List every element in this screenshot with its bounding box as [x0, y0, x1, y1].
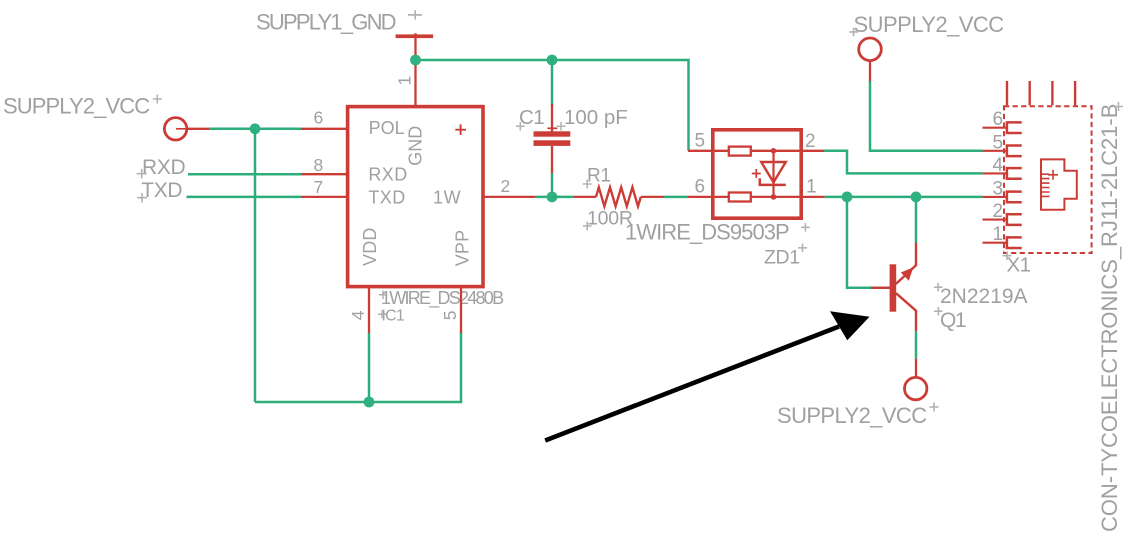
ZD1 name label	[764, 244, 807, 269]
wire main row to R1	[552, 196, 574, 199]
annotation arrow	[545, 311, 869, 440]
X1 jack icon	[1041, 159, 1077, 209]
svg-text:SUPPLY2_VCC: SUPPLY2_VCC	[777, 403, 927, 428]
C1 value label 100 pF	[557, 106, 628, 131]
ZD1 pin 6 stub	[688, 196, 712, 198]
svg-text:RXD: RXD	[142, 156, 185, 179]
IC1 pin 2 stub	[483, 196, 535, 198]
svg-text:2: 2	[993, 201, 1004, 222]
IC1 pin 8 stub	[301, 173, 347, 175]
svg-text:C1: C1	[519, 106, 544, 129]
net label RXD	[137, 156, 186, 179]
wire VCC left vertical down	[254, 129, 257, 402]
svg-text:2: 2	[501, 176, 511, 196]
net label SUPPLY2_VCC top right	[849, 12, 1004, 37]
X1 pin 2	[983, 201, 1022, 225]
IC1 pin 6 stub	[301, 128, 347, 130]
svg-text:1: 1	[395, 76, 415, 86]
IC1 pin 1 stub	[414, 33, 416, 106]
svg-text:TXD: TXD	[141, 179, 182, 202]
X1 pin 3	[983, 178, 1022, 202]
supply symbol SUPPLY2_VCC bottom (circle)	[905, 377, 927, 399]
junction main row B	[911, 192, 922, 203]
svg-text:SUPPLY2_VCC: SUPPLY2_VCC	[3, 94, 150, 119]
svg-text:4: 4	[348, 310, 368, 320]
IC1 name label IC1	[378, 308, 405, 325]
stub VCC top right	[869, 60, 871, 81]
IC1 value 1WIRE_DS2480B	[379, 288, 504, 309]
ZD1 pin 1 stub	[801, 196, 825, 198]
X1 top stub c	[1051, 81, 1053, 105]
ground symbol SUPPLY1_GND	[396, 34, 434, 38]
svg-text:IC1: IC1	[382, 308, 405, 325]
ZD1 pin 2 stub	[801, 150, 824, 152]
svg-text:2N2219A: 2N2219A	[940, 285, 1028, 308]
X1 pin 6	[983, 109, 1022, 133]
R1 name label	[583, 165, 611, 188]
X1 value label CON-TYCOELECTRONICS_RJ11-2LC21-B (rotated)	[1097, 102, 1123, 532]
svg-text:7: 7	[314, 177, 324, 197]
capacitor C1	[534, 60, 571, 197]
svg-text:1WIRE_DS9503P: 1WIRE_DS9503P	[625, 220, 789, 245]
X1 top stub d	[1074, 81, 1076, 105]
X1 pin 1	[983, 224, 1022, 248]
svg-text:1W: 1W	[433, 187, 461, 207]
svg-text:1: 1	[806, 177, 817, 198]
wire stub VCC circle to net	[187, 128, 209, 130]
transistor Q1 2N2219A	[871, 243, 916, 331]
svg-text:POL: POL	[369, 118, 405, 138]
svg-text:R1: R1	[587, 165, 611, 186]
svg-text:TXD: TXD	[368, 187, 405, 207]
protection device ZD1 body 1WIRE_DS9503P	[713, 130, 801, 218]
svg-text:1: 1	[993, 224, 1004, 245]
IC1 origin cross	[455, 124, 466, 135]
junction inside ZD1 top	[771, 148, 777, 154]
wire IC1 pin2 to junction	[535, 196, 552, 199]
svg-text:6: 6	[993, 109, 1004, 130]
stub to VCC bottom circle	[915, 359, 917, 378]
X1 pin 5	[983, 132, 1022, 156]
svg-text:VDD: VDD	[360, 227, 380, 266]
svg-text:6: 6	[695, 177, 706, 198]
X1 pin 4	[983, 155, 1022, 179]
X1 top stub a	[1006, 81, 1008, 105]
junction bottom net	[364, 397, 375, 408]
C1 name label	[516, 106, 544, 131]
X1 name label	[1003, 251, 1031, 276]
wire TXD	[187, 196, 302, 199]
wire GND net top horizontal	[416, 60, 689, 151]
ZD1 value label 1WIRE_DS9503P	[625, 220, 810, 245]
svg-text:5: 5	[440, 311, 460, 321]
junction VCC left	[250, 123, 261, 134]
svg-text:3: 3	[993, 178, 1004, 199]
junction C1 bottom	[547, 192, 558, 203]
ZD1 internal resistor top	[711, 147, 803, 156]
svg-text:RXD: RXD	[368, 164, 407, 184]
IC1 pin 7 stub	[301, 196, 347, 198]
junction inside ZD1 bottom	[771, 194, 777, 200]
svg-text:100 pF: 100 pF	[564, 106, 628, 129]
net label SUPPLY1_GND	[256, 10, 422, 35]
wire VCC left horizontal	[209, 128, 301, 131]
junction GND at C1	[547, 55, 558, 66]
svg-text:SUPPLY1_GND: SUPPLY1_GND	[256, 10, 396, 35]
svg-text:ZD1: ZD1	[764, 247, 800, 269]
svg-text:SUPPLY2_VCC: SUPPLY2_VCC	[854, 12, 1005, 37]
junction main row A	[842, 192, 853, 203]
net label SUPPLY2_VCC left	[3, 94, 162, 119]
supply symbol SUPPLY2_VCC left (circle)	[164, 118, 190, 140]
ZD1 internal resistor bottom	[711, 193, 803, 202]
svg-text:CON-TYCOELECTRONICS_RJ11-2LC21: CON-TYCOELECTRONICS_RJ11-2LC21-B	[1097, 104, 1122, 532]
svg-text:X1: X1	[1007, 254, 1031, 277]
svg-text:4: 4	[993, 155, 1004, 176]
resistor R1	[574, 187, 664, 206]
svg-text:2: 2	[805, 131, 816, 152]
wire ZD1 pin1 to RJ11 pin3	[825, 196, 983, 199]
svg-text:GND: GND	[405, 126, 425, 166]
wire junction to Q1 emitter	[915, 197, 918, 243]
junction GND at IC1 pin1	[410, 55, 421, 66]
wire bottom net	[255, 333, 461, 402]
op IC1 body 1WIRE_DS2480B	[348, 107, 483, 287]
R1 value label 100R	[583, 208, 633, 231]
ZD1 internal zener diode	[752, 151, 786, 197]
wire RXD	[188, 173, 301, 176]
ZD1 pin 5 stub	[688, 150, 712, 152]
svg-text:1WIRE_DS2480B: 1WIRE_DS2480B	[381, 288, 504, 309]
svg-text:5: 5	[695, 131, 706, 152]
wire R1 to ZD1	[664, 196, 688, 199]
svg-text:6: 6	[314, 108, 324, 128]
svg-text:5: 5	[993, 132, 1004, 153]
wire junction to Q1 base	[847, 197, 890, 288]
svg-text:VPP: VPP	[453, 230, 473, 267]
IC1 pin 5 stub	[460, 287, 462, 334]
connector X1 dashed body	[1004, 106, 1092, 253]
svg-text:8: 8	[314, 155, 324, 175]
wire ZD1 pin2 to RJ11 pin4	[824, 151, 983, 174]
wire VCC top right to RJ11 pin5	[870, 81, 983, 151]
supply symbol SUPPLY2_VCC top right (circle)	[859, 38, 882, 61]
Q1 value label 2N2219A	[934, 283, 1028, 308]
net label TXD	[137, 179, 182, 202]
svg-text:Q1: Q1	[940, 309, 966, 332]
X1 top stub b	[1028, 81, 1030, 105]
IC1 pin 4 stub	[368, 287, 370, 334]
wire Q1 collector down	[915, 331, 918, 358]
net label SUPPLY2_VCC bottom	[777, 403, 939, 429]
Q1 name label	[934, 307, 966, 332]
